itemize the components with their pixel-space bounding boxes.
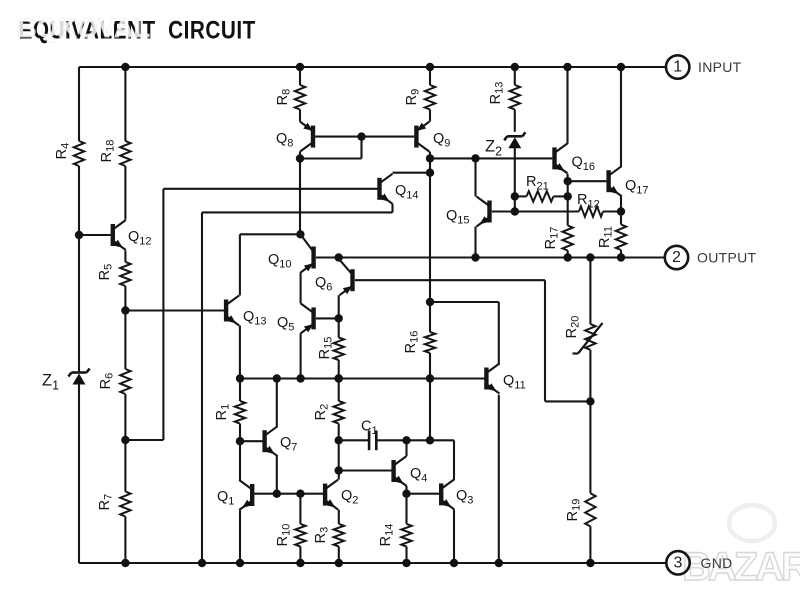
resistor R16 [403,331,435,354]
resistor R20 adjustable [564,316,603,354]
node R10 top junction [296,490,304,498]
node Q17 collector rail junction [617,63,625,71]
node R8 top rail junction [296,63,304,71]
wire Q9 base [362,136,415,138]
wire Q8 base-collector tie [300,137,362,159]
transistor Q7 [265,426,298,456]
wire R18 top lead [124,67,126,141]
wire Q1 emitter to ground [239,510,241,563]
node R1-Q7 base junction [236,437,244,445]
resistor R18 [99,140,131,166]
wire Q5 base [316,317,339,319]
wire Q14 base route [163,188,377,190]
pin terminal 3 GND [666,551,732,574]
node R7 ground junction [121,559,129,567]
wire Q17 collector to rail [620,67,622,166]
wire Q4 collector lead [405,440,407,456]
wire Q5 emitter down [300,333,302,378]
node Z2-Q15 base junction [511,207,519,215]
node Q11 emitter ground junction [495,559,503,567]
node R11 output junction [617,253,625,261]
wire Q4 emitter to Q3 base [407,493,440,495]
node R19 ground junction [586,559,594,567]
node R13 top rail junction [511,63,519,71]
node A mirror junction [296,230,304,238]
wire R20 to R19 [589,350,591,494]
resistor R5 [97,262,131,286]
wire R8 top lead [299,67,301,85]
transistor Q12 [113,220,152,250]
node Q7 collector junction [273,374,281,382]
wire R8 to Q8 emitter [299,110,301,122]
svg-text:GND: GND [701,555,733,571]
wire R1 to Q7 base node [239,424,241,442]
wire R15 to R2 [338,360,340,401]
wire Q2 collector lead [338,471,340,480]
wire Q10 emitter to Q5 collector [300,272,302,303]
pin terminal 1 INPUT [666,55,742,78]
node R20-R19 junction [586,397,594,405]
node Q16 emitter junction [564,177,572,185]
wire Z1 to ground rail [78,385,80,564]
transistor Q13 [226,296,266,328]
wire Q6 base route [355,280,589,401]
node Q1 emitter ground junction [236,559,244,567]
resistor R9 [404,85,435,110]
node R5-R6 Q13 base junction [121,306,129,314]
wire Q8 collector down to mirror node [299,152,301,235]
node R1 top junction [236,374,244,382]
wire Q17 base [568,180,607,182]
node Q16 collector rail junction [563,63,571,71]
node R2-C1 junction [335,436,343,444]
resistor R13 [488,82,520,110]
node Q9 collector junction [426,154,434,162]
transistor Q10 [268,234,314,272]
wire Q7 base node to Q1 collector [239,441,241,480]
wire R9 to Q9 emitter [429,110,431,122]
resistor R8 [275,85,305,110]
wire R21 right lead [554,195,568,197]
wire R18 to Q12 collector [124,166,126,220]
wire Q2 emitter to R3 [338,510,340,524]
wire R14 to ground [405,547,407,564]
wire Q4 emitter lead [405,486,407,494]
wire Q4 base [339,469,392,471]
wire R13 top lead [514,67,516,85]
wire Q3 emitter to ground [453,509,455,563]
svg-text:OUTPUT: OUTPUT [697,250,756,266]
wire Q6 emitter down [338,295,340,318]
wire Q9 collector to Q16 base [430,157,552,159]
wire R13 to Z2 [514,110,516,132]
wire bottom ground rail [79,562,666,564]
node R16 bottom junction [426,374,434,382]
wire R7 to ground rail [124,517,126,564]
node Q15 collector junction [471,154,479,162]
wire R16 to feedback node [429,353,431,440]
resistor R19 [565,493,596,526]
node C Q5 base junction [335,314,343,322]
wire Q11 collector route [430,302,499,365]
title EQUIVALENT CIRCUIT [19,16,256,44]
watermark over title [17,13,150,43]
node Q14 collector junction [426,169,434,177]
node C1 feedback junction [426,436,434,444]
wire R10 to ground [299,547,301,564]
node R10 ground junction [296,559,304,567]
resistor R10 [275,524,306,547]
pin terminal 2 OUTPUT [665,246,757,269]
node Q5 emitter junction [296,374,304,382]
wire C1 left lead [339,439,369,441]
wire R12 right lead [603,210,621,212]
wire Q9 collector down long [429,152,431,332]
node R15-R2 junction [335,374,343,382]
resistor R17 [543,226,573,251]
zener diode Z1 [42,369,90,393]
wire Q12 base [79,234,111,236]
node R21 right junction [564,192,572,200]
transistor Q8 [276,122,313,152]
wire R3 to ground [338,547,340,564]
wire Q16 collector to rail [566,67,568,144]
wire Q17 emitter lead [620,196,622,224]
wire R19 to ground [589,526,591,563]
watermark bazar logo bottom right [682,505,800,589]
svg-text:INPUT: INPUT [698,59,742,75]
node Q15 emitter output junction [471,253,479,261]
wire Q7 collector up [276,379,278,427]
wire R14 top lead [405,494,407,524]
wire Q14 collector [393,172,431,174]
node R9 top rail junction [426,63,434,71]
resistor R21 [526,174,554,202]
node R4-Q12 base junction [75,231,83,239]
resistor R4 [54,141,84,166]
transistor Q3 [441,479,473,509]
wire Q15 emitter to output rail [474,227,476,258]
wire R11 to output rail [620,250,622,258]
wire Q13 base [125,309,224,311]
node R3 ground junction [335,559,343,567]
node B Q10 base junction [335,253,343,261]
resistor R12 [577,192,603,217]
resistor R14 [378,524,412,547]
wire top supply rail [79,66,666,68]
node R21 left junction [511,192,519,200]
transistor Q4 [394,456,428,486]
wire R4 top lead [78,67,80,141]
node Q4 collector junction [402,436,410,444]
wire output rail [316,256,665,258]
svg-text:1: 1 [673,59,682,76]
wire R1 top lead [239,379,241,402]
resistor R11 [597,225,626,251]
node R15 bottom junction [335,374,343,382]
resistor R6 [98,369,131,394]
resistor R3 [313,524,344,547]
wire R17 to output rail [567,251,569,258]
node Q11 collector junction [426,298,434,306]
transistor Q11 [486,364,525,394]
wire output to R20 [589,258,591,325]
resistor R15 [317,337,344,360]
wire Q10 base [316,256,339,258]
transistor Q6 [315,259,353,295]
resistor R2 [313,401,344,424]
wire Q12 emitter to R5 [124,251,126,263]
node R14 ground junction [402,559,410,567]
zener diode Z2 [485,132,525,158]
node R6 bottom junction [121,436,129,444]
wire Z2 to R21 node [514,148,516,212]
node Q2 collector junction [335,466,343,474]
resistor R7 [97,492,131,517]
wire R5 to R6 [124,286,126,369]
wire Q16 emitter node [566,174,568,181]
svg-text:2: 2 [672,249,681,266]
node Q8-Q9 base junction [357,132,365,140]
capacitor C1 [361,419,378,451]
svg-text:3: 3 [674,554,683,571]
wire Q13 collector route [240,234,301,295]
wire R6 to R7 [124,394,126,492]
wire R15 leads [338,318,340,337]
wire bias node rail [240,377,485,379]
wire Q13 emitter down [239,326,241,379]
wire R21 left lead [515,195,527,197]
wire Q15 collector up [474,158,476,196]
transistor Q5 [277,303,314,333]
node Q8 collector junction [296,154,304,162]
transistor Q9 [416,122,450,152]
wire R6 junction to Q14 base route [125,189,163,440]
transistor Q14 [380,174,419,204]
transistor Q15 [446,197,490,227]
wire Q15 base / R12 rail [492,210,579,212]
resistor R1 [214,401,245,424]
node Q4 emitter junction [402,490,410,498]
wire Q16 emitter to R17 [567,181,569,225]
wire R4 bottom to Z1 [78,166,80,372]
wire Q1 base to Q2 base [254,493,323,495]
node Q7 emitter junction [273,490,281,498]
wire R2 to C1 node [338,424,340,471]
wire Q7 emitter down [276,456,278,494]
node R12-R11 junction [617,207,625,215]
wire R9 top lead [429,67,431,85]
svg-text:BQKOVAL: BQKOVAL [17,13,150,43]
wire Q14 emitter route [202,204,393,563]
node R20 output junction [586,253,594,261]
transistor Q2 [325,480,358,510]
node Q3 emitter ground junction [450,559,458,567]
wire Q11 emitter to ground [498,395,500,563]
wire R10 top lead [299,494,301,524]
node Q14 emitter ground junction [198,559,206,567]
wire C1 right to Q3 collector [376,440,454,480]
wire Q7 base [240,440,263,442]
transistor Q17 [609,166,649,196]
transistor Q16 [555,143,596,173]
transistor Q1 [217,480,252,510]
node R18 top rail junction [121,63,129,71]
node R17 output junction [564,253,572,261]
